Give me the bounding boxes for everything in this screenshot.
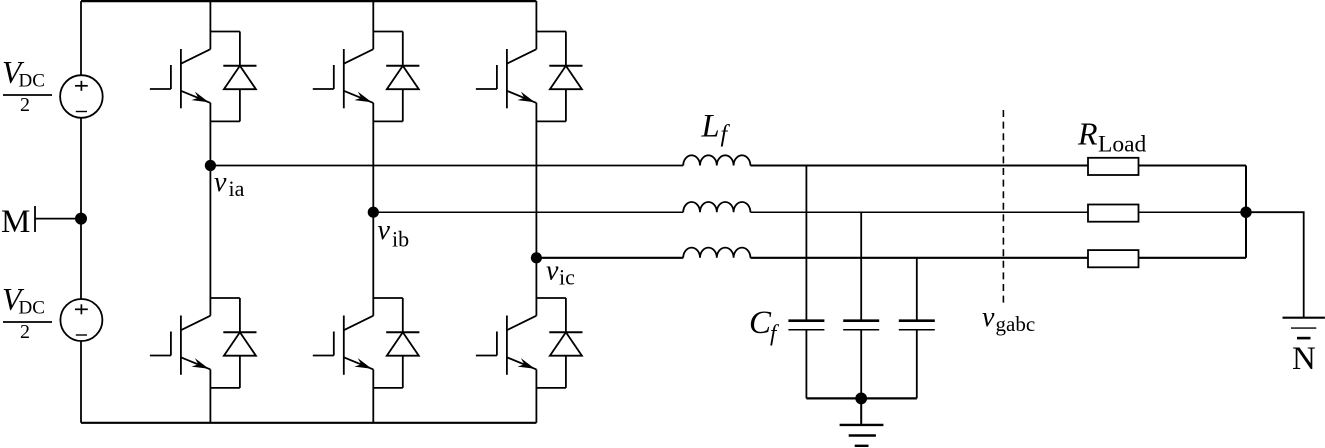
- wire phase c node to Lf: [536, 257, 683, 259]
- capacitor Cf phase c: [899, 258, 935, 399]
- node v_gabc dashed measurement line: [1002, 110, 1004, 303]
- resistor RLoad phase a: [1088, 158, 1139, 175]
- capacitor Cf phase b: [843, 212, 879, 398]
- transistor Q4 (lower IGBT leg b): [313, 212, 374, 423]
- resistor RLoad phase c: [1088, 250, 1139, 267]
- diode D5 (upper freewheel leg c): [536, 32, 582, 122]
- wire phase b Lf to RLoad: [750, 211, 1088, 213]
- label v_ib: [378, 215, 410, 251]
- svg-text:v: v: [214, 167, 227, 198]
- wire left bus lower: [80, 341, 82, 423]
- inductor Lf phase a: [683, 155, 750, 165]
- svg-text:R: R: [1077, 115, 1098, 151]
- svg-text:gabc: gabc: [996, 312, 1036, 336]
- wire phase c RLoad to star: [1139, 257, 1247, 259]
- terminal tick M: [34, 206, 36, 232]
- svg-text:f: f: [721, 122, 731, 148]
- transistor Q2 (lower IGBT leg a): [150, 166, 211, 423]
- label VDC/2 lower: [2, 282, 52, 343]
- svg-text:C: C: [749, 305, 772, 341]
- label v_ic: [546, 255, 575, 289]
- svg-text:Load: Load: [1098, 132, 1147, 158]
- wire star to neutral ground: [1246, 212, 1304, 317]
- inductor Lf phase c: [683, 248, 750, 258]
- wire phase a node to Lf: [210, 165, 683, 167]
- svg-text:M: M: [1, 204, 30, 240]
- label v_ia: [214, 167, 245, 201]
- wire bottom DC- rail: [81, 422, 536, 424]
- node v_ic junction: [531, 252, 542, 263]
- svg-text:v: v: [378, 215, 391, 246]
- diode D2 (lower freewheel leg a): [210, 298, 256, 388]
- svg-text:2: 2: [20, 94, 30, 116]
- wire left bus middle: [80, 118, 82, 299]
- wire capacitor common tie: [806, 397, 916, 399]
- svg-text:ic: ic: [559, 265, 575, 290]
- wire right star bus: [1245, 166, 1247, 258]
- voltage source VDC/2 lower: [60, 299, 102, 341]
- transistor Q1 (upper IGBT leg a): [150, 1, 211, 165]
- label Lf: [701, 109, 731, 148]
- label VDC/2 upper: [2, 55, 52, 116]
- node load star point: [1240, 207, 1251, 218]
- wire phase c Lf to RLoad: [750, 257, 1088, 259]
- transistor Q6 (lower IGBT leg c): [476, 258, 537, 423]
- label v_gabc: [982, 302, 1035, 336]
- svg-text:2: 2: [20, 321, 30, 343]
- node v_ib junction: [368, 207, 379, 218]
- wire phase a Lf to RLoad: [750, 165, 1088, 167]
- node capacitor star point: [855, 393, 867, 405]
- transistor Q3 (upper IGBT leg b): [313, 1, 374, 212]
- svg-text:L: L: [701, 109, 720, 145]
- wire left bus upper: [80, 1, 82, 75]
- svg-text:f: f: [770, 321, 780, 346]
- label Cf: [749, 305, 780, 345]
- ground capacitor star: [840, 398, 884, 445]
- wire phase a RLoad to star: [1139, 165, 1247, 167]
- svg-text:DC: DC: [19, 71, 45, 92]
- capacitor Cf phase a: [788, 166, 824, 399]
- svg-text:v: v: [982, 302, 995, 333]
- transistor Q5 (upper IGBT leg c): [476, 1, 537, 258]
- label RLoad: [1077, 115, 1147, 157]
- node v_ia junction: [205, 160, 216, 171]
- resistor RLoad phase b: [1088, 205, 1139, 222]
- wire phase b RLoad to star: [1139, 211, 1247, 213]
- voltage source VDC/2 upper: [60, 75, 103, 118]
- svg-text:DC: DC: [19, 298, 45, 319]
- svg-text:N: N: [1292, 341, 1316, 377]
- svg-text:v: v: [546, 255, 559, 286]
- ground neutral N: [1283, 318, 1325, 338]
- wire M lead: [35, 218, 81, 220]
- diode D3 (upper freewheel leg b): [373, 32, 419, 122]
- diode D4 (lower freewheel leg b): [373, 298, 419, 388]
- inductor Lf phase b: [683, 202, 750, 212]
- diode D6 (lower freewheel leg c): [536, 298, 582, 388]
- svg-text:ia: ia: [229, 176, 245, 201]
- svg-text:ib: ib: [392, 226, 409, 251]
- node M junction: [75, 213, 87, 225]
- diode D1 (upper freewheel leg a): [210, 32, 256, 122]
- wire top DC+ rail: [81, 0, 536, 2]
- wire phase b node to Lf: [373, 211, 683, 213]
